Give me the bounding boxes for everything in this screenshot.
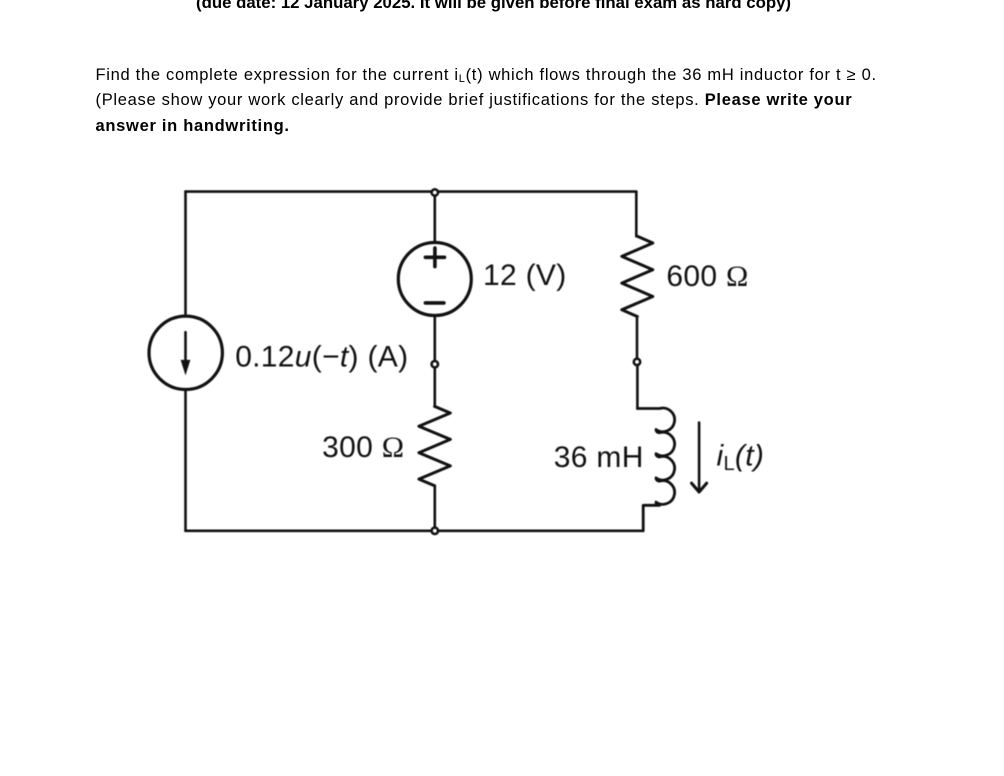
wire top [186,190,637,193]
node top middle [432,189,438,195]
wire middle mid [433,316,436,407]
wire right mid [636,317,639,359]
wire left upper [184,192,187,317]
svg-text:iL(t): iL(t) [717,439,765,475]
wire right upper [635,192,638,237]
node bottom middle [432,528,438,534]
voltage source plus sign [425,248,444,267]
svg-text:0.12u(−t) (A): 0.12u(−t) (A) [235,340,408,373]
current source I1 circle [149,316,222,389]
svg-text:36 mH: 36 mH [554,441,644,474]
svg-text:600 Ω: 600 Ω [666,260,748,293]
resistor R300 zigzag [419,406,450,485]
node middle (between V source and R300) [432,361,438,367]
iL(t) current arrow [698,423,701,491]
svg-text:300 Ω: 300 Ω [322,431,404,464]
wire bottom [186,529,644,532]
wire middle lower [433,486,436,531]
node right (between R600 and L) [634,359,640,365]
heading (clipped at top) [196,0,791,12]
voltage source V1 circle [398,243,471,316]
inductor L1 coil [637,408,674,531]
wire right to inductor [636,366,639,409]
problem paragraph [96,63,896,140]
wire left lower [184,390,187,531]
wire middle upper [433,192,436,243]
voltage source minus sign [425,301,444,305]
current source I1 arrow [184,332,187,361]
resistor R600 zigzag [622,236,653,316]
svg-text:12 (V): 12 (V) [483,259,567,292]
